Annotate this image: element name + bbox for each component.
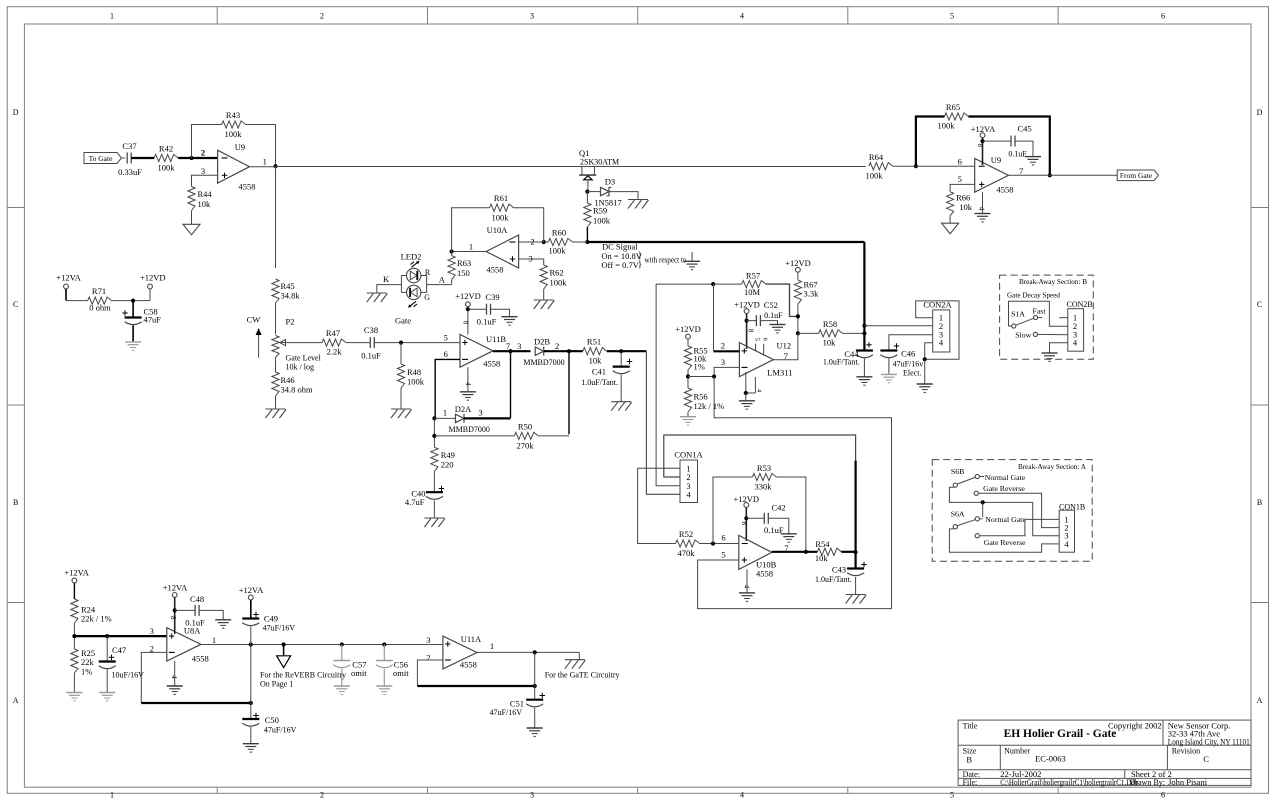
svg-text:5: 5 bbox=[950, 791, 954, 800]
wire bbox=[433, 471, 435, 492]
svg-text:6: 6 bbox=[721, 533, 725, 543]
svg-text:Elect.: Elect. bbox=[903, 369, 921, 378]
node bbox=[382, 642, 386, 646]
svg-text:2: 2 bbox=[530, 237, 534, 247]
svg-text:+12VD: +12VD bbox=[734, 300, 760, 310]
svg-text:R46: R46 bbox=[281, 375, 295, 385]
wire pin3 bbox=[714, 367, 739, 376]
resistor R47 bbox=[322, 328, 346, 357]
svg-text:4558: 4558 bbox=[239, 182, 256, 192]
capacitor C38 bbox=[361, 325, 381, 361]
svg-text:Gate Decay Speed: Gate Decay Speed bbox=[1007, 291, 1060, 300]
wire out bbox=[772, 551, 818, 553]
svg-text:R58: R58 bbox=[823, 319, 837, 329]
resistor R65 bbox=[938, 102, 969, 131]
wire bbox=[433, 501, 435, 519]
svg-text:150: 150 bbox=[457, 268, 470, 278]
wire S6B reverse net bbox=[979, 493, 1059, 527]
diode D2A MMBD7000 bbox=[449, 404, 490, 434]
port To Gate bbox=[84, 153, 122, 164]
svg-text:Off = 0.7V: Off = 0.7V bbox=[601, 260, 639, 270]
svg-text:MMBD7000: MMBD7000 bbox=[523, 358, 564, 367]
node U10A out bbox=[450, 249, 454, 253]
break-away B box bbox=[1000, 275, 1094, 359]
capacitor C39 bbox=[477, 292, 500, 326]
svg-text:Drawn By:: Drawn By: bbox=[1130, 778, 1165, 787]
svg-text:A: A bbox=[1257, 696, 1263, 705]
resistor R60 bbox=[548, 228, 587, 256]
capacitor C42 bbox=[764, 503, 786, 536]
power +12VD bbox=[140, 272, 166, 289]
svg-text:MMBD7000: MMBD7000 bbox=[449, 425, 490, 434]
svg-text:4558: 4558 bbox=[997, 185, 1014, 195]
svg-text:10k: 10k bbox=[959, 202, 973, 212]
svg-text:G: G bbox=[424, 293, 430, 302]
node bbox=[745, 319, 749, 323]
node Q1 gate junction bbox=[585, 190, 589, 194]
wire bbox=[761, 321, 778, 325]
wire out bbox=[773, 333, 798, 359]
node bbox=[804, 550, 808, 554]
svg-text:100k: 100k bbox=[225, 129, 243, 139]
earth ground bbox=[881, 374, 897, 382]
power +12VA C49 bbox=[239, 585, 264, 618]
svg-text:}: } bbox=[638, 259, 642, 269]
wire pin3 down bbox=[698, 377, 892, 609]
wire bbox=[798, 332, 865, 334]
resistor R63 bbox=[448, 256, 471, 280]
power +12VA C45 bbox=[971, 124, 996, 165]
wire bbox=[464, 407, 511, 418]
wire bbox=[275, 396, 277, 409]
svg-text:270k: 270k bbox=[517, 440, 535, 450]
wire bbox=[275, 358, 277, 373]
wire bbox=[746, 517, 764, 519]
resistor R42 bbox=[154, 144, 178, 173]
node bbox=[131, 299, 135, 303]
wire node A bbox=[427, 275, 452, 285]
node bbox=[399, 341, 403, 345]
wire pin1 net bbox=[638, 468, 680, 543]
svg-text:R45: R45 bbox=[281, 281, 295, 291]
svg-text:LED2: LED2 bbox=[401, 252, 422, 262]
svg-text:C45: C45 bbox=[1018, 124, 1032, 134]
node bbox=[466, 307, 470, 311]
svg-text:4: 4 bbox=[740, 12, 744, 21]
earth ground bbox=[527, 728, 543, 736]
svg-text:1.0uF/Tant.: 1.0uF/Tant. bbox=[581, 378, 618, 387]
chassis ground bbox=[611, 402, 632, 411]
svg-text:R60: R60 bbox=[552, 228, 566, 238]
wire bbox=[132, 301, 134, 318]
pot P2 bbox=[272, 317, 322, 372]
svg-text:3: 3 bbox=[150, 626, 154, 636]
svg-text:EH Holier Grail - Gate: EH Holier Grail - Gate bbox=[1004, 728, 1117, 740]
wire DC signal bold bbox=[587, 241, 864, 243]
earth ground bbox=[167, 686, 183, 694]
svg-text:U9: U9 bbox=[235, 142, 245, 152]
wire out bbox=[201, 644, 443, 646]
svg-text:0.1uF: 0.1uF bbox=[477, 316, 497, 326]
wire out bbox=[1008, 174, 1117, 176]
capacitor C52 bbox=[756, 300, 783, 326]
svg-text:C: C bbox=[13, 300, 18, 309]
svg-text:U9: U9 bbox=[991, 155, 1001, 165]
svg-text:5: 5 bbox=[958, 174, 962, 184]
node bbox=[282, 642, 286, 646]
capacitor C47 bbox=[99, 645, 144, 680]
switch S1A bbox=[1011, 306, 1046, 339]
svg-text:CW: CW bbox=[247, 315, 261, 325]
svg-text:6: 6 bbox=[444, 349, 448, 359]
power +12VD C52 bbox=[734, 300, 760, 350]
wire bbox=[346, 342, 370, 344]
wire pin3 bbox=[192, 175, 218, 186]
earth ground bbox=[215, 620, 231, 628]
wire bbox=[543, 289, 545, 300]
wire CON2B pin1 stub bbox=[1059, 317, 1068, 319]
svg-text:47uF/16V: 47uF/16V bbox=[490, 708, 523, 717]
resistor R55 bbox=[684, 346, 707, 372]
node bbox=[340, 642, 344, 646]
wire bbox=[687, 370, 689, 388]
wire bbox=[178, 157, 217, 159]
wire bbox=[745, 393, 747, 401]
svg-text:1: 1 bbox=[263, 157, 267, 167]
wire bbox=[106, 670, 108, 693]
svg-text:EC-0063: EC-0063 bbox=[1035, 753, 1066, 763]
svg-text:C39: C39 bbox=[485, 292, 499, 302]
svg-text:+12VD: +12VD bbox=[675, 324, 701, 334]
node bbox=[432, 416, 436, 420]
node bbox=[533, 684, 537, 688]
wire U10A out to R63 bbox=[451, 252, 453, 256]
wire bbox=[400, 343, 402, 364]
switch S6B bbox=[951, 467, 1026, 487]
wire bbox=[888, 358, 890, 374]
svg-text:3.3k: 3.3k bbox=[804, 289, 820, 299]
wire pin4 bbox=[467, 367, 469, 392]
svg-text:47uF: 47uF bbox=[144, 315, 162, 325]
svg-text:1: 1 bbox=[490, 641, 494, 651]
svg-text:2: 2 bbox=[555, 341, 559, 351]
svg-text:2: 2 bbox=[426, 652, 430, 662]
svg-text:R54: R54 bbox=[815, 539, 830, 549]
svg-text:Break-Away Section: A: Break-Away Section: A bbox=[1018, 462, 1086, 471]
svg-text:4: 4 bbox=[978, 207, 986, 211]
svg-text:C37: C37 bbox=[122, 141, 136, 151]
wire bbox=[620, 375, 622, 402]
node bbox=[72, 634, 76, 638]
earth ground bbox=[1025, 157, 1041, 165]
svg-text:2: 2 bbox=[721, 340, 725, 350]
wire bbox=[149, 289, 151, 301]
svg-text:0.1uF: 0.1uF bbox=[1008, 149, 1027, 158]
capacitor C57 omit bbox=[333, 645, 367, 695]
wire R65 loop bbox=[916, 117, 945, 167]
earth ground bbox=[460, 392, 476, 400]
svg-text:+12VA: +12VA bbox=[56, 272, 81, 282]
svg-text:330k: 330k bbox=[755, 482, 773, 492]
svg-text:CON1B: CON1B bbox=[1059, 503, 1085, 512]
op-amp U11A bbox=[426, 634, 494, 670]
svg-text:K: K bbox=[383, 274, 390, 284]
svg-text:Gate Reverse: Gate Reverse bbox=[984, 538, 1026, 547]
wire pin3 net bbox=[656, 284, 680, 486]
wire wiper bbox=[285, 342, 322, 344]
earth ground bbox=[917, 384, 933, 392]
chassis ground bbox=[424, 518, 445, 527]
wire pin7 down bbox=[510, 351, 512, 418]
svg-text:C49: C49 bbox=[264, 614, 278, 624]
resistor R25 bbox=[71, 648, 95, 676]
power +12VD C42 bbox=[734, 494, 760, 541]
svg-text:100k: 100k bbox=[593, 216, 611, 226]
svg-text:+12VD: +12VD bbox=[734, 494, 760, 504]
wire bbox=[122, 157, 126, 159]
earth ground bbox=[739, 593, 755, 601]
resistor R66 bbox=[947, 192, 973, 216]
svg-text:2: 2 bbox=[201, 148, 205, 158]
svg-text:C38: C38 bbox=[364, 325, 378, 335]
wire bbox=[468, 308, 486, 310]
svg-text:470k: 470k bbox=[678, 548, 696, 558]
wire pin2 feedback bbox=[141, 652, 251, 703]
wire bbox=[924, 359, 926, 384]
chassis ground bbox=[391, 409, 412, 418]
wire pin2 feedback bbox=[417, 660, 534, 686]
svg-text:2: 2 bbox=[320, 791, 324, 800]
wire bbox=[66, 289, 88, 301]
capacitor C58 47uF bbox=[122, 307, 161, 325]
resistor R49 bbox=[431, 447, 455, 471]
wire bbox=[609, 192, 638, 200]
wire bbox=[199, 610, 223, 619]
svg-text:3: 3 bbox=[478, 407, 482, 417]
resistor R44 bbox=[188, 187, 213, 211]
svg-text:6: 6 bbox=[1161, 791, 1165, 800]
resistor R56 bbox=[684, 388, 724, 412]
svg-text:220: 220 bbox=[441, 459, 454, 469]
node pin2 junction bbox=[189, 156, 193, 160]
node bbox=[533, 650, 537, 654]
svg-text:For the GaTE Circuitry: For the GaTE Circuitry bbox=[545, 670, 620, 679]
svg-text:C51: C51 bbox=[510, 698, 524, 708]
svg-text:4558: 4558 bbox=[483, 359, 500, 369]
power +12VD R67 bbox=[785, 258, 811, 280]
svg-text:3: 3 bbox=[721, 357, 725, 367]
svg-text:U10A: U10A bbox=[487, 225, 509, 235]
node out bbox=[1048, 173, 1052, 177]
svg-text:12k / 1%: 12k / 1% bbox=[694, 401, 725, 411]
resistor R24 bbox=[71, 599, 112, 623]
earth ground bbox=[975, 214, 991, 222]
svg-text:omit: omit bbox=[351, 668, 367, 678]
resistor R48 bbox=[397, 364, 424, 388]
svg-text:47uF/16V: 47uF/16V bbox=[263, 624, 296, 633]
wire pin6 bbox=[893, 165, 975, 167]
wire bbox=[538, 435, 569, 437]
connector CON2A bbox=[923, 300, 952, 353]
capacitor C41 bbox=[581, 351, 632, 387]
wire feedback up bbox=[192, 125, 222, 159]
svg-text:3: 3 bbox=[530, 12, 534, 21]
resistor R71 bbox=[88, 286, 112, 313]
svg-text:6: 6 bbox=[958, 156, 962, 166]
transistor Q1 2SK30ATM bbox=[579, 148, 619, 192]
svg-text:2: 2 bbox=[320, 12, 324, 21]
svg-text:10k: 10k bbox=[198, 199, 212, 209]
svg-text:R65: R65 bbox=[946, 102, 960, 112]
wire bbox=[544, 341, 583, 351]
svg-text:C52: C52 bbox=[764, 300, 778, 310]
svg-text:4558: 4558 bbox=[487, 265, 504, 275]
wire pin5 bbox=[950, 184, 975, 191]
svg-text:10M: 10M bbox=[744, 287, 761, 297]
wire bbox=[73, 583, 75, 599]
wire S6A reverse net bbox=[980, 519, 1059, 535]
wire U9out down bbox=[275, 166, 277, 268]
wire bbox=[514, 208, 544, 242]
svg-text:100k: 100k bbox=[407, 377, 425, 387]
svg-text:47uF/16v: 47uF/16v bbox=[893, 360, 924, 369]
wire bbox=[250, 727, 252, 744]
svg-text:Title: Title bbox=[963, 721, 978, 730]
node DC signal junction bbox=[585, 240, 589, 244]
wire pin4 bbox=[174, 661, 176, 686]
break-away A box bbox=[932, 460, 1092, 562]
svg-text:For the ReVERB Circuitry: For the ReVERB Circuitry bbox=[260, 670, 346, 679]
wire bbox=[534, 708, 536, 728]
wire bbox=[434, 435, 514, 437]
svg-text:C48: C48 bbox=[190, 594, 204, 604]
svg-text:3: 3 bbox=[201, 166, 205, 176]
earth ground bbox=[680, 417, 696, 425]
capacitor C46 bbox=[880, 343, 923, 377]
earth ground bbox=[684, 261, 700, 269]
wire CON2A pin2 bbox=[864, 325, 932, 327]
wire bbox=[855, 577, 857, 595]
svg-text:8: 8 bbox=[747, 329, 755, 333]
svg-text:0.1uF: 0.1uF bbox=[764, 311, 783, 320]
node bbox=[744, 391, 748, 395]
svg-text:1.0uF/Tant.: 1.0uF/Tant. bbox=[815, 575, 852, 584]
svg-text:0.1uF: 0.1uF bbox=[361, 351, 381, 361]
wire bbox=[687, 412, 689, 417]
wire CON2A pin1 gnd loop bbox=[916, 301, 959, 359]
svg-text:D2A: D2A bbox=[455, 404, 472, 414]
diode D2B MMBD7000 bbox=[523, 337, 564, 367]
earth ground bbox=[739, 401, 755, 409]
svg-text:R53: R53 bbox=[757, 463, 771, 473]
wire bbox=[112, 300, 150, 302]
wire U9 out to Q1 bbox=[250, 166, 276, 168]
svg-text:10k: 10k bbox=[815, 553, 829, 563]
svg-text:R48: R48 bbox=[407, 367, 421, 377]
svg-text:John Pisani: John Pisani bbox=[1168, 777, 1208, 787]
wire bbox=[433, 418, 435, 447]
power +12VA U8A bbox=[163, 583, 188, 635]
ground triangle bbox=[183, 224, 200, 235]
svg-text:C47: C47 bbox=[112, 645, 126, 655]
svg-text:Gate: Gate bbox=[395, 316, 411, 326]
wire bbox=[688, 376, 714, 378]
svg-text:From Gate: From Gate bbox=[1120, 171, 1153, 180]
wire bbox=[797, 304, 799, 333]
wire down to R50 bbox=[568, 351, 570, 434]
capacitor C40 bbox=[405, 486, 444, 507]
svg-text:3: 3 bbox=[426, 635, 430, 645]
svg-text:1: 1 bbox=[469, 242, 473, 252]
wire bbox=[250, 627, 252, 704]
svg-text:R: R bbox=[425, 268, 431, 277]
wire bbox=[983, 140, 1011, 142]
svg-text:34.8 ohm: 34.8 ohm bbox=[281, 385, 314, 395]
node bbox=[567, 349, 571, 353]
svg-text:D: D bbox=[1257, 108, 1263, 117]
connector CON1B bbox=[1059, 503, 1085, 553]
ground triangle bbox=[942, 223, 959, 234]
svg-text:Long Island City, NY 11101: Long Island City, NY 11101 bbox=[1168, 737, 1250, 747]
svg-text:D3: D3 bbox=[605, 177, 615, 187]
svg-text:10k: 10k bbox=[823, 338, 837, 348]
svg-text:Break-Away Section: B: Break-Away Section: B bbox=[1019, 277, 1087, 286]
op-amp U12 LM311 bbox=[721, 329, 793, 393]
svg-text:100k: 100k bbox=[549, 246, 567, 256]
node bbox=[711, 282, 715, 286]
wire pin2 stub bbox=[714, 284, 740, 351]
wire bbox=[700, 543, 739, 545]
wire main horizontal bbox=[276, 166, 866, 168]
svg-text:8: 8 bbox=[461, 321, 469, 325]
LED2 dual bbox=[395, 252, 431, 326]
resistor R61 bbox=[490, 193, 514, 223]
resistor R43 bbox=[222, 110, 246, 139]
earth ground bbox=[66, 693, 82, 701]
wire bbox=[106, 636, 108, 661]
svg-text:100k: 100k bbox=[550, 278, 568, 288]
svg-text:C50: C50 bbox=[265, 715, 279, 725]
chassis ground bbox=[367, 293, 388, 302]
wire fast stub bbox=[1038, 317, 1042, 319]
svg-text:On Page 1: On Page 1 bbox=[260, 679, 293, 688]
svg-text:C:\HolierGrail\holiergrailrC1\: C:\HolierGrail\holiergrailrC1\holiergrai… bbox=[1000, 778, 1138, 787]
earth ground bbox=[781, 534, 797, 542]
svg-text:R64: R64 bbox=[869, 152, 884, 162]
node bbox=[796, 331, 800, 335]
node bbox=[432, 434, 436, 438]
wire bbox=[491, 309, 510, 317]
svg-text:0 ohm: 0 ohm bbox=[89, 303, 111, 313]
wire S6B common bbox=[949, 487, 1059, 535]
wire bbox=[73, 673, 75, 693]
chassis ground bbox=[266, 409, 287, 418]
svg-text:1: 1 bbox=[110, 791, 114, 800]
wire pin4 bbox=[982, 192, 984, 213]
wire bbox=[1015, 141, 1033, 157]
svg-text:B: B bbox=[13, 498, 18, 507]
wire bbox=[691, 252, 693, 261]
svg-text:1: 1 bbox=[110, 12, 114, 21]
node bbox=[508, 349, 512, 353]
wire bbox=[534, 652, 536, 699]
svg-text:100k: 100k bbox=[938, 121, 956, 131]
text DC Signal bbox=[601, 241, 686, 270]
svg-text:Gate Reverse: Gate Reverse bbox=[983, 484, 1025, 493]
wire bbox=[544, 241, 549, 243]
earth ground bbox=[99, 693, 115, 701]
svg-text:+12VA: +12VA bbox=[163, 583, 188, 593]
